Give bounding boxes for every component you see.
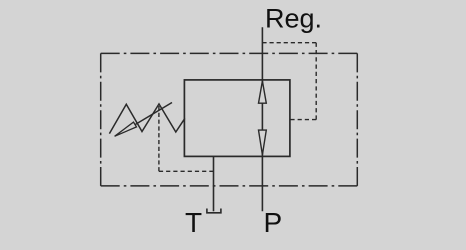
adjustment arrow xyxy=(115,103,172,137)
svg-text:Reg.: Reg. xyxy=(265,4,322,34)
pilot line (dashed, Reg to valve right side): top run xyxy=(262,42,316,44)
valve body U1 xyxy=(184,80,290,156)
enclosure top edge (dash-dot boundary) xyxy=(101,52,358,54)
wire: T drain line xyxy=(213,156,215,211)
enclosure left edge xyxy=(100,53,102,186)
enclosure right edge xyxy=(356,53,358,186)
enclosure bottom edge xyxy=(101,185,358,187)
drain pilot line (dashed, spring chamber down) xyxy=(158,106,160,171)
plugged port symbol xyxy=(207,209,221,213)
drain pilot line: horizontal run to T line xyxy=(159,170,214,172)
check arrow up xyxy=(259,81,267,103)
pilot line: run into valve right side xyxy=(290,119,316,121)
svg-text:T: T xyxy=(185,207,202,238)
wire: main flow line Reg-P xyxy=(261,27,263,211)
svg-text:P: P xyxy=(264,207,283,238)
pilot line: right vertical run xyxy=(315,43,317,120)
spring xyxy=(109,104,184,134)
check arrow down xyxy=(259,130,267,155)
